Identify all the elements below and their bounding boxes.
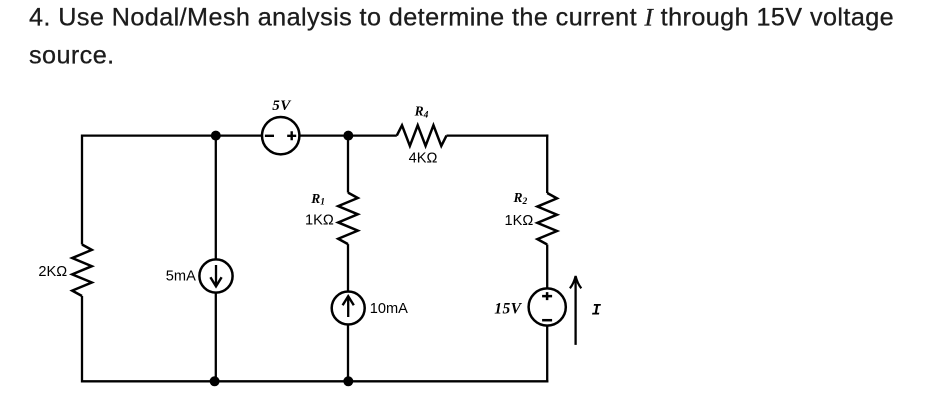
wire 10mA to bottom rail	[347, 325, 349, 382]
wire top-left horizontal (left corner to 5V source)	[82, 134, 262, 136]
wire R2 to 15V source	[546, 245, 548, 289]
node dot bottom-middle (R1 branch bottom)	[343, 376, 353, 386]
svg-text:2KΩ: 2KΩ	[38, 264, 67, 280]
svg-text:10mA: 10mA	[370, 301, 408, 317]
current arrow I head	[570, 276, 581, 288]
node dot top-middle (R1 branch top)	[343, 131, 353, 141]
wire branch 5mA upper	[215, 136, 217, 260]
15V plus sign	[542, 292, 552, 300]
resistor R1 zigzag	[338, 193, 358, 244]
wire R1 to 10mA source	[347, 244, 349, 292]
wire 15V to bottom rail	[546, 326, 548, 383]
wire top middle (5V source to R4)	[299, 134, 396, 136]
voltage source 5V circle	[262, 117, 299, 154]
wire bottom rail	[82, 380, 548, 382]
voltage source 15V circle	[529, 288, 566, 325]
svg-text:15V: 15V	[494, 300, 522, 317]
svg-text:5V: 5V	[272, 98, 292, 114]
node dot top-left (5mA branch top)	[211, 131, 221, 141]
wire left rail upper	[81, 134, 83, 244]
wire middle branch upper	[347, 136, 349, 193]
wire top right (R4 to top-right corner)	[447, 134, 549, 136]
svg-text:4KΩ: 4KΩ	[409, 151, 438, 167]
current arrow I shaft	[574, 278, 576, 345]
resistor R4 zigzag	[397, 125, 447, 146]
svg-text:4. Use Nodal/Mesh analysis to: 4. Use Nodal/Mesh analysis to determine …	[29, 4, 894, 32]
wire left rail lower	[81, 296, 83, 382]
10mA arrow shaft	[347, 299, 349, 318]
svg-text:I: I	[592, 301, 602, 319]
current source 10mA circle	[332, 292, 365, 325]
5V plus sign	[287, 131, 296, 140]
node dot bottom-left (5mA branch bottom)	[210, 376, 220, 386]
5mA arrow shaft	[215, 265, 217, 285]
current source 5mA circle	[199, 259, 232, 292]
wire branch 5mA lower	[215, 293, 217, 382]
svg-text:5mA: 5mA	[166, 269, 196, 285]
svg-text:R2: R2	[513, 190, 528, 207]
svg-text:1KΩ: 1KΩ	[305, 213, 334, 229]
resistor R2 zigzag	[537, 193, 557, 244]
5V minus sign	[265, 135, 274, 137]
svg-text:R1: R1	[310, 191, 325, 208]
5mA arrowhead	[210, 277, 221, 286]
10mA arrowhead	[343, 296, 354, 305]
svg-text:source.: source.	[29, 42, 115, 70]
resistor 2KOhm zigzag	[72, 245, 92, 296]
15V minus sign	[542, 319, 552, 322]
svg-text:1KΩ: 1KΩ	[505, 213, 534, 229]
wire right rail upper	[546, 134, 548, 193]
svg-text:R4: R4	[414, 104, 429, 121]
